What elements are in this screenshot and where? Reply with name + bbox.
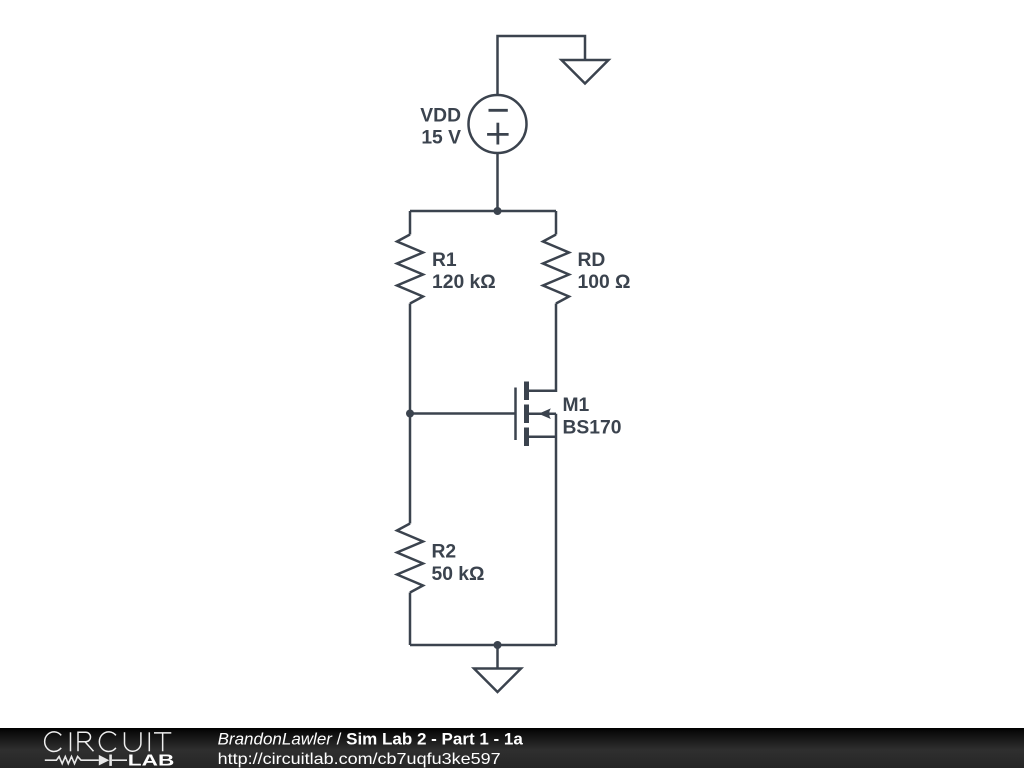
wire RD to drain xyxy=(529,304,556,391)
svg-text:15 V: 15 V xyxy=(421,128,461,149)
svg-text:http://circuitlab.com/cb7uqfu3: http://circuitlab.com/cb7uqfu3ke597 xyxy=(218,751,501,768)
wire rail to R1 xyxy=(409,211,412,235)
ground (top right) xyxy=(562,60,609,84)
svg-text:R1: R1 xyxy=(432,250,457,271)
footer url line xyxy=(218,751,501,768)
svg-text:100 Ω: 100 Ω xyxy=(578,272,631,293)
node top junction xyxy=(494,207,502,215)
svg-text:BrandonLawler / Sim Lab 2 - Pa: BrandonLawler / Sim Lab 2 - Part 1 - 1a xyxy=(218,730,524,749)
wire bottom rail xyxy=(410,644,556,647)
wire R1 to gate node xyxy=(409,304,412,414)
svg-text:BS170: BS170 xyxy=(563,418,622,439)
svg-text:120 kΩ: 120 kΩ xyxy=(432,272,496,293)
wire bottom node to ground xyxy=(496,645,499,669)
wire R2 to bottom rail xyxy=(409,593,412,646)
label M1 BS170 xyxy=(563,395,622,438)
transistor M1 xyxy=(516,382,557,447)
svg-text:RD: RD xyxy=(578,250,606,271)
ground (bottom) xyxy=(474,669,521,693)
wire source to bottom rail xyxy=(555,414,558,645)
logo LAB text xyxy=(128,752,175,768)
footer bar xyxy=(0,728,1024,768)
footer title line xyxy=(218,730,524,749)
node gate junction xyxy=(406,410,414,418)
node bottom junction xyxy=(494,641,502,649)
voltage source VDD circle xyxy=(469,95,527,153)
wire rail to RD xyxy=(555,211,558,235)
resistor RD xyxy=(543,235,569,304)
svg-text:50 kΩ: 50 kΩ xyxy=(432,564,485,585)
label R1 120 kOhm xyxy=(432,250,496,293)
minus sign of VDD xyxy=(489,109,508,112)
wire gate node to R2 xyxy=(409,414,412,524)
label VDD 15 V xyxy=(420,105,461,148)
plus sign of VDD xyxy=(487,123,509,145)
wire top rail xyxy=(410,210,556,213)
svg-text:M1: M1 xyxy=(563,395,590,416)
wire top rail to ground xyxy=(498,36,586,94)
label RD 100 Ohm xyxy=(578,250,631,293)
wire VDD to top node xyxy=(496,154,499,211)
svg-text:R2: R2 xyxy=(432,541,457,562)
resistor R1 xyxy=(397,235,423,304)
logo resistor-diode squiggle xyxy=(45,755,127,766)
resistor R2 xyxy=(397,524,423,593)
logo CIRCUIT wordmark xyxy=(45,732,172,752)
wire gate node to gate xyxy=(410,412,516,415)
svg-text:VDD: VDD xyxy=(420,105,461,126)
svg-text:LAB: LAB xyxy=(128,752,175,768)
label R2 50 kOhm xyxy=(432,541,485,584)
